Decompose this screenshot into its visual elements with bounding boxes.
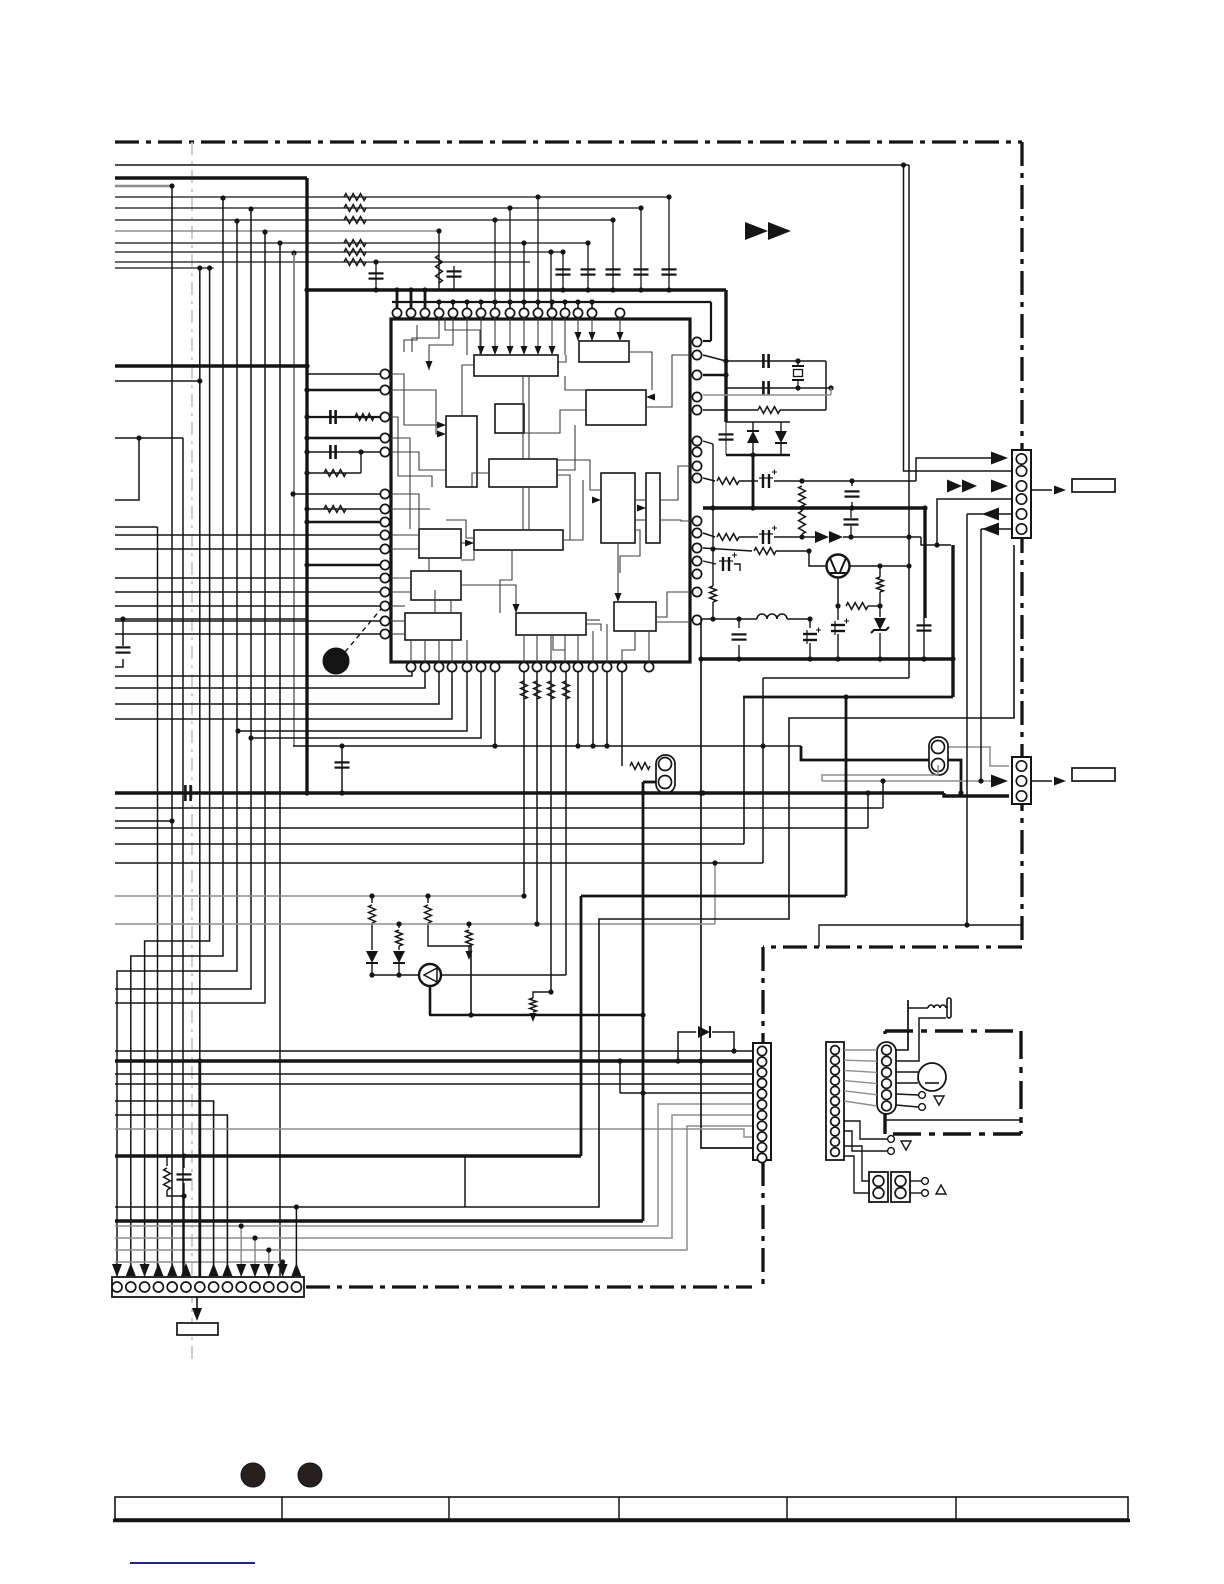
arrow (222, 1263, 232, 1276)
arrow (1054, 486, 1066, 495)
pin (380, 530, 389, 539)
wire (619, 1061, 621, 1093)
wire (738, 645, 740, 659)
arrow (947, 480, 962, 493)
wire (951, 545, 954, 697)
wire long to CN4 pin4 (115, 1083, 755, 1085)
diode D1 (747, 431, 759, 443)
wire signal (115, 261, 530, 263)
arrow (291, 1263, 301, 1276)
capacitor C electrolytic4 (722, 557, 724, 571)
wire (470, 946, 472, 1015)
wire thick riser (580, 896, 583, 1156)
junction (799, 534, 804, 539)
inductor L1 (757, 614, 787, 619)
capacitor C13 (719, 433, 734, 435)
wire (344, 259, 366, 266)
wire (293, 253, 295, 746)
junction (906, 563, 911, 568)
pin CN7 (882, 1090, 892, 1100)
capacitor C3 (606, 268, 621, 270)
wire (843, 536, 909, 538)
junction (610, 217, 615, 222)
wire Z-staircase to ribbon (145, 268, 210, 1276)
arrow (250, 1264, 260, 1277)
wire (166, 1156, 168, 1166)
wire (371, 923, 373, 950)
wire CN6 to CN8 pin2 (844, 1156, 869, 1193)
arrow (513, 604, 520, 613)
capacitor C14 (845, 490, 860, 492)
diode D2 (775, 431, 787, 443)
bus thick mid (703, 506, 925, 509)
junction (369, 893, 374, 898)
junction (277, 240, 282, 245)
wire staircase to page edge (115, 232, 265, 1003)
wire (801, 534, 803, 537)
wire (909, 536, 921, 538)
pin (560, 308, 569, 317)
wire (787, 618, 810, 620)
wire (630, 763, 650, 770)
wire clamp bottom (726, 454, 790, 457)
pin (380, 489, 389, 498)
wire corner down (115, 1101, 214, 1276)
circle (241, 1463, 265, 1487)
wire (877, 577, 884, 592)
bus VDD drop right of IC (724, 290, 727, 422)
circle (419, 964, 441, 986)
junction (548, 249, 553, 254)
junction (906, 534, 911, 539)
arrow (592, 497, 601, 504)
junction (799, 505, 804, 510)
wire thick to CN2 pin3 (944, 793, 1009, 796)
junction (425, 893, 430, 898)
wire VCC top (115, 164, 909, 166)
table column divider (618, 1497, 620, 1519)
capacitor C electrolytic5 (803, 633, 817, 635)
junction (535, 194, 540, 199)
junction (396, 972, 401, 977)
junction (865, 790, 870, 795)
junction (304, 287, 309, 292)
box (826, 1042, 844, 1160)
wire from IC bottom pin (536, 672, 538, 924)
pin (380, 573, 389, 582)
arrow into demod (646, 394, 655, 401)
wire thick (752, 455, 755, 508)
junction (562, 299, 567, 304)
wire to CN4 pin1 (734, 1050, 755, 1052)
pin (617, 662, 626, 671)
pin (692, 392, 701, 401)
wire from IC bottom pin (592, 672, 594, 746)
capacitor C15 (844, 518, 859, 520)
junction (731, 1048, 736, 1053)
pin (519, 662, 528, 671)
junction (877, 603, 882, 608)
wire xtal top (726, 360, 826, 362)
bundle wire vertical (171, 186, 173, 1276)
wire from pin (703, 355, 726, 361)
pin (547, 308, 556, 317)
circle (895, 1188, 906, 1199)
junction (235, 728, 240, 733)
wire gray drop to CN5 pin (268, 1250, 270, 1276)
pin (380, 544, 389, 553)
pin (447, 662, 456, 671)
pin CN6 (831, 1117, 840, 1126)
pin (392, 308, 401, 317)
pin CN6 (831, 1066, 840, 1075)
pin CN5 (140, 1282, 150, 1292)
wire from edge to IC pin (115, 605, 380, 607)
pin CN4 (757, 1121, 766, 1130)
arrow (589, 332, 596, 341)
arrow out CN1 pin6 (982, 523, 999, 536)
wire (774, 480, 916, 482)
wire thick (581, 895, 846, 898)
wire CN1 pin6 (981, 528, 1012, 530)
pin (490, 662, 499, 671)
circle (659, 758, 672, 771)
wire riser x763 (762, 678, 764, 863)
pin CN5 (181, 1282, 191, 1292)
junction (197, 265, 202, 270)
junction (617, 1058, 622, 1063)
capacitor C6 (447, 270, 462, 272)
pin CN1 (1016, 481, 1026, 491)
wire (436, 255, 443, 283)
junction (950, 656, 955, 661)
wire long y844 (115, 843, 744, 845)
arrow (181, 1263, 191, 1276)
wire (910, 1192, 921, 1194)
junction (806, 548, 811, 553)
wire (534, 681, 541, 699)
wire gray to bundle (115, 185, 172, 188)
wire from pin (703, 548, 752, 551)
wire (115, 437, 183, 439)
box (891, 1172, 910, 1202)
pin CN5 (153, 1282, 163, 1292)
wire diode loop (678, 1032, 696, 1061)
wire thick y760 (801, 746, 961, 793)
arrow (126, 1263, 136, 1276)
junction (921, 656, 926, 661)
junction (304, 414, 309, 419)
wire (867, 793, 869, 828)
wire (1031, 780, 1052, 782)
wire (115, 1154, 581, 1157)
capacitor (335, 761, 350, 763)
wire to CN1 pin2 (904, 165, 1013, 471)
junction (849, 505, 854, 510)
circle (323, 648, 349, 674)
capacitor C electrolytic3 (831, 624, 845, 626)
wire from IC bottom pin (577, 672, 579, 746)
pin CN6 (831, 1137, 840, 1146)
junction (478, 299, 483, 304)
pin (505, 308, 514, 317)
IC internal block: servo (474, 530, 563, 550)
wire thick to main bus (115, 176, 307, 179)
pin stub (564, 302, 566, 309)
junction (901, 162, 906, 167)
junction (575, 743, 580, 748)
pin (692, 569, 701, 578)
circle (873, 1188, 884, 1199)
junction (835, 603, 840, 608)
IC internal block: DSP core (489, 459, 557, 487)
pin CN2 (1016, 761, 1026, 771)
wire (739, 480, 758, 482)
arrow (209, 1263, 219, 1276)
pin CN6 (831, 1076, 840, 1085)
wire riser x967 (966, 514, 968, 925)
circle (888, 1148, 895, 1155)
wire thick to IC pin (307, 437, 380, 440)
pin CN5 (209, 1282, 219, 1292)
wire gray drop to CN5 pin (282, 1262, 284, 1276)
pin CN7 (882, 1056, 892, 1066)
wire thick y697 (743, 696, 953, 699)
junction (795, 385, 800, 390)
box (929, 737, 948, 775)
wire (344, 194, 366, 201)
pin (380, 447, 389, 456)
board boundary dash-dot bottom from CN5 (306, 1285, 752, 1288)
pin (692, 556, 701, 565)
wire (427, 896, 429, 903)
junction (492, 217, 497, 222)
junction (585, 240, 590, 245)
wire from pin (703, 561, 716, 564)
pin (406, 308, 415, 317)
wire (115, 526, 158, 528)
wire (780, 443, 782, 455)
wire (115, 923, 715, 925)
junction (736, 656, 741, 661)
wire gray up (714, 863, 716, 924)
wire (780, 409, 826, 411)
bus thick ground (701, 657, 951, 660)
junction (450, 299, 455, 304)
capacitor C8 (329, 410, 332, 424)
pin (406, 662, 415, 671)
double arrow symbol (745, 222, 768, 240)
wire (844, 1131, 887, 1151)
wire (643, 781, 656, 784)
wire long vertical to CN5 pin4 (157, 527, 159, 1276)
IC internal block: input sel (446, 416, 477, 487)
wire coil to CN7 pin1 (908, 1000, 928, 1050)
pin CN2 (1016, 776, 1026, 786)
wire AVDD drop (710, 302, 712, 341)
wire signal (115, 207, 641, 209)
arrow (264, 1264, 274, 1277)
pin (560, 662, 569, 671)
bus thick stair (115, 1219, 643, 1222)
pin (533, 308, 542, 317)
arrow (112, 1264, 122, 1277)
pin CN6 (831, 1086, 840, 1095)
pin CN5 (291, 1282, 301, 1292)
diode D3 (698, 1026, 710, 1038)
pin stub (551, 302, 553, 309)
pin CN5 (278, 1282, 288, 1292)
circle (659, 776, 672, 789)
arrow into CN2 pin2 (991, 775, 1008, 788)
pin (476, 308, 485, 317)
wire (425, 905, 432, 923)
junction (575, 299, 580, 304)
wire (183, 1156, 185, 1168)
junction (934, 542, 939, 547)
junction (239, 1223, 244, 1228)
box (794, 370, 803, 377)
wire riser x981 (980, 529, 982, 781)
junction (248, 735, 253, 740)
wire (122, 619, 124, 646)
arrow (167, 1263, 177, 1276)
wire (712, 602, 714, 619)
wire loop (825, 361, 827, 410)
wire gray bus to CN4 and CN5 (115, 1115, 753, 1238)
wire (130, 1562, 255, 1564)
pin CN4 (757, 1068, 766, 1077)
wire (882, 781, 884, 808)
wire (398, 924, 400, 928)
junction (280, 1259, 285, 1264)
wire Q2 emitter thick (429, 986, 432, 1015)
wire long (115, 1050, 734, 1052)
junction (197, 378, 202, 383)
arrow (521, 346, 528, 355)
pin (692, 337, 701, 346)
wire (851, 481, 853, 486)
wire (752, 422, 754, 431)
junction (835, 656, 840, 661)
wire thick riser 2 (845, 697, 848, 896)
arrow (535, 346, 542, 355)
wire (797, 380, 799, 388)
junction (978, 778, 983, 783)
wire (396, 930, 403, 946)
junction (197, 1058, 202, 1063)
wire from pin (703, 478, 715, 481)
wire corner down (115, 1115, 227, 1276)
wire column x713 (712, 444, 714, 586)
arrow (768, 222, 791, 240)
wire thick to IC pin (307, 389, 380, 392)
pin CN6 (831, 1148, 840, 1157)
pin (532, 662, 541, 671)
pin CN5 (195, 1282, 205, 1292)
capacitor C7 (369, 272, 384, 274)
wire (115, 230, 439, 232)
wire (809, 643, 811, 659)
junction (492, 299, 497, 304)
wire (896, 1105, 918, 1107)
wire (355, 414, 374, 421)
arrow (1054, 777, 1066, 786)
pin stub (509, 302, 511, 309)
wire (1031, 489, 1052, 491)
capacitor C9 (329, 445, 332, 459)
arrow out CN1 pin5 (982, 508, 999, 521)
wire (441, 974, 566, 976)
junction (290, 491, 295, 496)
wire (774, 536, 816, 538)
junction (262, 229, 267, 234)
pin (380, 601, 389, 610)
wire (710, 586, 717, 602)
capacitor C12 (762, 381, 765, 395)
junction (304, 449, 309, 454)
arrow (437, 422, 446, 429)
junction (207, 265, 212, 270)
wire gray drop to CN5 pin (254, 1238, 256, 1276)
pin (490, 308, 499, 317)
junction (181, 1153, 186, 1158)
wire down x701 to CN4 pin10 (701, 659, 753, 1148)
pin (380, 433, 389, 442)
pin CN1 (1016, 494, 1026, 504)
bundle wire vertical (293, 253, 295, 746)
motor mark (925, 1082, 939, 1084)
double arrow on wire (815, 531, 829, 543)
wire (700, 619, 702, 659)
circle (895, 1176, 906, 1187)
pin CN1 (1016, 466, 1026, 476)
junction (169, 818, 174, 823)
junction (304, 562, 309, 567)
wire (896, 1094, 918, 1095)
wire (752, 443, 754, 455)
pin CN4 (757, 1153, 766, 1162)
wire long to CN4 pin3 (115, 1073, 755, 1075)
pin (602, 662, 611, 671)
junction (698, 1058, 703, 1063)
wire (167, 1190, 184, 1196)
wire (846, 603, 868, 610)
arrow (507, 346, 514, 355)
wire riser x744 (743, 697, 745, 844)
wire (372, 974, 419, 976)
wire from edge to IC pin (115, 534, 380, 536)
junction (394, 287, 399, 292)
wire (587, 243, 589, 290)
wire long y863 (115, 862, 763, 864)
table column divider (448, 1497, 450, 1519)
capacitor C2 (634, 268, 649, 270)
arrow (829, 531, 843, 543)
pin CN6 (831, 1056, 840, 1065)
junction (339, 743, 344, 748)
wire to bundle (115, 267, 214, 269)
junction (736, 616, 741, 621)
pin (692, 516, 701, 525)
circle (873, 1176, 884, 1187)
pin (434, 662, 443, 671)
IC internal block: decoder (474, 355, 558, 376)
pin CN7 (882, 1079, 892, 1089)
junction (535, 299, 540, 304)
wire (307, 416, 380, 418)
wire to IC bottom pin (115, 672, 452, 719)
